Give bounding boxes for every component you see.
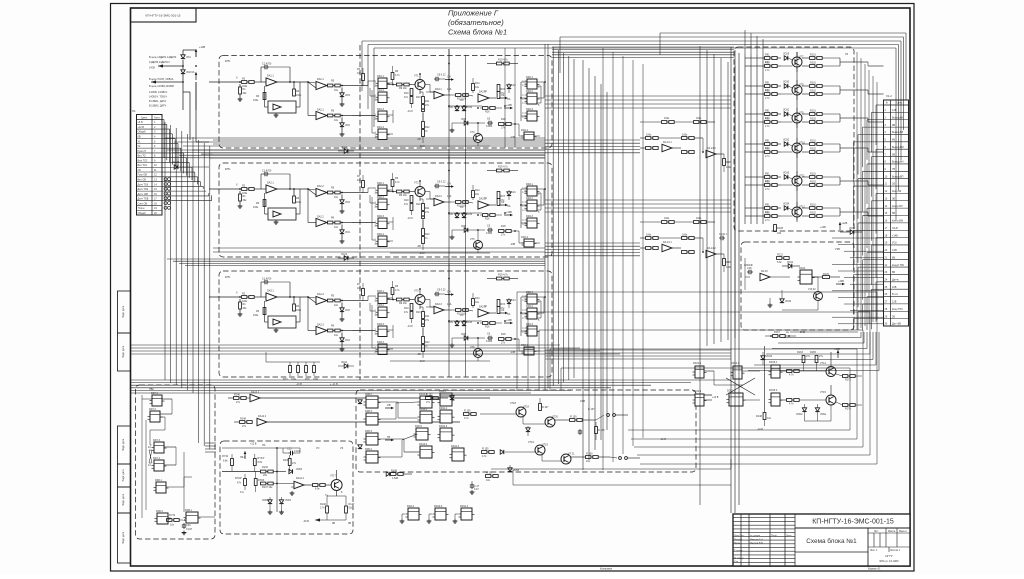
svg-text:R92: R92 [765, 148, 770, 151]
svg-text:DD2.2: DD2.2 [526, 90, 534, 93]
resistor R125 [823, 276, 830, 279]
channel 2 diode VD cap C24 [507, 192, 511, 196]
bus to decoder [205, 442, 216, 444]
bottom box top rail [222, 447, 300, 449]
channel 1 comparator DA3.1 [434, 91, 444, 99]
svg-text:0.047: 0.047 [186, 528, 193, 531]
channel 1 diode VD3 [340, 93, 344, 97]
power transistor dashed enclosure [734, 47, 854, 231]
svg-text:VD: VD [460, 99, 464, 102]
svg-text:DA2.1: DA2.1 [267, 182, 274, 185]
resistor R139 [570, 419, 575, 422]
svg-text:DD11.3: DD11.3 [439, 425, 448, 428]
diode VD1 [181, 55, 185, 59]
svg-text:24 В: 24 В [580, 400, 585, 403]
svg-text:R17в: R17в [845, 408, 851, 411]
row collector resistors VT11 [810, 176, 815, 179]
logic DD8.2 column [366, 396, 378, 408]
svg-text:НА: НА [262, 444, 266, 447]
svg-text:R146: R146 [234, 394, 240, 397]
channel 1 resistor R10 [410, 89, 413, 96]
channel 1 logic outputs [387, 82, 393, 84]
svg-text:+12 В: +12 В [250, 443, 257, 446]
svg-text:DD8.3: DD8.3 [365, 410, 373, 413]
channel 3 comparator DA2.1 [308, 297, 316, 298]
svg-text:R102: R102 [810, 90, 816, 93]
channel 2 VT emitter chain [422, 199, 424, 204]
channel 2 transistor VT2 [415, 187, 425, 197]
diode VD41 [788, 264, 792, 268]
row diode VD33 [784, 175, 788, 179]
feedback resistor DA 13.2 [723, 159, 726, 166]
svg-text:R122: R122 [777, 254, 783, 257]
svg-text:VD61: VD61 [285, 499, 292, 502]
mid horizontals y350 [545, 349, 731, 351]
svg-text:Подп. дата: Подп. дата [122, 438, 125, 451]
channel 3 VT emitter chain [422, 307, 424, 312]
svg-text:VD6м: VD6м [796, 413, 803, 416]
svg-text:VT1: VT1 [414, 75, 419, 78]
logic DD12.3 [729, 393, 743, 406]
channel 1 resistor R18 [499, 123, 504, 126]
terminals M2 [619, 457, 622, 460]
channel 2 resistor R7 left [362, 181, 365, 188]
svg-text:DD2.4: DD2.4 [521, 129, 529, 132]
bottom rail with arrow [315, 519, 346, 521]
svg-text:ФНЧ: ФНЧ [225, 60, 231, 63]
svg-text:С24: С24 [511, 84, 516, 87]
channel 3 resistor R9 [397, 298, 402, 301]
summing resistors DA 13.1 [646, 137, 651, 140]
svg-text:Контр ВМ: Контр ВМ [892, 220, 903, 223]
transistor VT17 [331, 480, 342, 491]
channel 3 input resistor R31 [209, 296, 241, 298]
row transistor VT9 [792, 113, 802, 123]
logic DD7.3 [154, 442, 164, 453]
logic DD10.3 [435, 508, 446, 520]
svg-text:DA 13.1: DA 13.1 [663, 141, 672, 144]
capacitor driver [579, 429, 581, 431]
channel 3 resistor R15 [497, 300, 500, 307]
svg-text:DA2.1: DA2.1 [317, 109, 324, 112]
svg-text:R14: R14 [475, 189, 480, 192]
svg-text:VD4: VD4 [345, 339, 350, 342]
svg-text:+12 В: +12 В [138, 126, 145, 129]
svg-text:+12 В: +12 В [712, 396, 719, 399]
channel 3 resistor R10 [410, 304, 413, 311]
connector X1 table [137, 115, 163, 216]
channel 1 capacitor C6 [487, 122, 489, 124]
svg-text:9В: 9В [892, 124, 895, 127]
diode VD64 [386, 472, 390, 476]
svg-text:R149: R149 [391, 470, 397, 473]
resistor R160 [586, 456, 591, 459]
channel 2 resistor R12 bottom [422, 229, 425, 236]
svg-text:DA3.3: DA3.3 [435, 303, 442, 306]
svg-text:DD3.3: DD3.3 [377, 323, 385, 326]
channel 1 transistor VT4 [474, 134, 483, 143]
summing input resistors upper [662, 121, 667, 124]
channel 1 resistor R7 left [362, 74, 365, 81]
svg-text:VD41: VD41 [787, 261, 794, 264]
channel 2 VT to DA3 link [425, 191, 430, 193]
svg-text:R98: R98 [726, 161, 731, 164]
arrow up +12 [244, 454, 246, 459]
svg-text:14ОК: 14ОК [149, 67, 156, 70]
svg-text:DD2.2: DD2.2 [526, 197, 534, 200]
resistor R143 [167, 519, 172, 522]
svg-text:+13В: +13В [506, 211, 512, 214]
transistor lower right box [814, 292, 823, 301]
svg-text:R18: R18 [501, 225, 506, 228]
svg-text:ПА: ПА [507, 205, 511, 208]
channel 1 resistor R12 bottom [422, 122, 425, 129]
svg-text:DA2.3: DA2.3 [317, 293, 324, 296]
channel 3 diode VD cap C24 [507, 300, 511, 304]
svg-text:С140 1: С140 1 [719, 233, 728, 236]
channel 1 diode VD4 [340, 123, 344, 127]
svg-text:DD2.3: DD2.3 [377, 215, 385, 218]
row wires VT12 [839, 208, 841, 216]
svg-text:VD12: VD12 [341, 253, 348, 256]
svg-text:-0В: -0В [417, 138, 421, 141]
svg-text:0.002: 0.002 [486, 232, 493, 235]
channel 1 resistor R14 [472, 84, 475, 91]
channel 3 resistor R18 [499, 338, 504, 341]
diode VD57 [450, 396, 454, 400]
title block name cell [795, 551, 868, 553]
svg-text:ФНЧ: ФНЧ [225, 276, 231, 279]
svg-text:VT 21: VT 21 [568, 453, 575, 456]
svg-text:ОА.В: ОА.В [892, 227, 898, 230]
resistor R155 [482, 451, 487, 454]
wires into X1.2 [876, 104, 884, 106]
svg-text:ОВ: ОВ [387, 404, 391, 407]
svg-text:VD62: VD62 [296, 468, 303, 471]
svg-text:R102: R102 [810, 212, 816, 215]
channel 1 resistor R14 [293, 89, 296, 96]
svg-text:10А: 10А [447, 88, 452, 91]
channel 2 comparator DA2.1 [308, 189, 316, 190]
channel 1 diode VD8 row [464, 121, 468, 125]
svg-text:R101: R101 [810, 54, 816, 57]
svg-text:R12: R12 [425, 233, 430, 236]
crossing wires decoder [378, 401, 398, 403]
channel 3 optocoupler pin stubs [525, 295, 528, 297]
channel 1 optocoupler cross wires [537, 81, 544, 83]
svg-text:ВНВ: ВНВ [800, 331, 805, 334]
right section boundary verticals [730, 47, 732, 513]
svg-text:R101: R101 [810, 140, 816, 143]
logic DD10 column [420, 396, 432, 408]
logic DD15.2 [771, 393, 780, 406]
X1 row output resistors [164, 178, 167, 181]
svg-text:R 150: R 150 [464, 410, 471, 413]
channel 2 resistor R16b [483, 214, 488, 217]
svg-text:R76: R76 [305, 378, 310, 381]
svg-text:УЗ: УЗ [340, 446, 344, 450]
svg-text:R137 10к: R137 10к [262, 486, 273, 489]
svg-text:R91: R91 [765, 173, 770, 176]
channel 1 wires to logic [352, 85, 368, 87]
logic DD15.1 [771, 365, 780, 378]
svg-text:VD34: VD34 [785, 300, 792, 303]
svg-text:DD2.3: DD2.3 [526, 323, 534, 326]
svg-text:VD56: VD56 [513, 469, 520, 472]
channel 3 capacitor C6 [487, 337, 489, 339]
svg-text:ФНЧ: ФНЧ [225, 168, 231, 171]
svg-text:Вкл ОВ: Вкл ОВ [138, 178, 147, 181]
svg-text:-13В: -13В [510, 243, 516, 246]
resistor R165 vertical [815, 356, 818, 363]
svg-text:Копировал: Копировал [600, 568, 613, 571]
long lines under decoder [491, 468, 731, 470]
title block frame [733, 514, 910, 566]
power rail +12V arrow [195, 52, 197, 57]
resistor R128 [774, 225, 777, 232]
row collector resistors VT10 [810, 143, 815, 146]
logic DD9.1 [440, 393, 452, 406]
wires lower right box [745, 276, 750, 278]
channel 1 resistor R13 [456, 94, 461, 97]
channel 3 diodes VD9 VD10 [455, 322, 459, 326]
svg-text:Пров.: Пров. [734, 542, 741, 545]
svg-text:Формат А1: Формат А1 [868, 568, 881, 571]
svg-text:R 136: R 136 [598, 429, 605, 432]
svg-text:Вывод ВЛ: Вывод ВЛ [892, 131, 904, 134]
channel 3 dashed enclosure [219, 271, 552, 377]
logic DD6.1 [156, 482, 166, 493]
svg-text:DA 14.1: DA 14.1 [663, 241, 672, 244]
svg-text:DA3.1: DA3.1 [435, 88, 442, 91]
svg-text:-14 В: -14 В [757, 428, 763, 431]
svg-text:DA12.1: DA12.1 [251, 391, 260, 394]
channel 2 input resistor R21 [209, 188, 241, 190]
diode VD58 [526, 428, 530, 432]
svg-text:R 139: R 139 [570, 416, 577, 419]
svg-text:Вкл ТО: Вкл ТО [138, 155, 146, 158]
row diode VD30 [784, 84, 788, 88]
svg-text:Сигн ОВ: Сигн ОВ [138, 202, 148, 205]
resistor R136 [288, 459, 291, 466]
resistor R173 row2 [787, 399, 792, 402]
channel 3 optocoupler DD2.4 [524, 347, 534, 355]
svg-text:R10: R10 [404, 92, 409, 95]
channel 1 bottom diode [344, 149, 348, 153]
svg-text:VD3: VD3 [345, 94, 350, 97]
row collector resistors VT7 [810, 57, 815, 60]
svg-text:Лит.: Лит. [874, 530, 879, 533]
svg-text:1000пФ: 1000пФ [744, 264, 753, 267]
svg-text:Датч ТОК: Датч ТОК [138, 188, 149, 191]
channel 3 bottom resistor row [289, 366, 292, 373]
svg-text:VD29: VD29 [783, 53, 790, 56]
svg-text:VD6н: VD6н [820, 413, 827, 416]
capacitor C27 [471, 483, 473, 485]
svg-text:Приложение Г: Приложение Г [448, 9, 499, 18]
channel 2 logic outputs [387, 189, 393, 191]
svg-text:НГТУ: НГТУ [885, 554, 893, 558]
svg-text:Изм Лист: Изм Лист [734, 535, 745, 538]
svg-text:Листов 1: Листов 1 [890, 549, 901, 552]
channel 2 resistor R18 [499, 230, 504, 233]
resistor R137 [261, 482, 266, 485]
comb wires to X1.2 [832, 237, 884, 239]
svg-text:+5 В: +5 В [138, 121, 143, 124]
svg-text:DD3.4: DD3.4 [377, 341, 385, 344]
svg-text:+13В: +13В [506, 319, 512, 322]
svg-text:VD: VD [460, 314, 464, 317]
svg-text:6В: 6В [892, 256, 895, 259]
svg-text:VD: VD [460, 206, 464, 209]
power block to X1.2 wires [854, 61, 868, 63]
power block feed horizontals [552, 46, 734, 48]
channel 2 bottom diode [344, 256, 348, 260]
channel 3 cap C9 arrow [434, 293, 436, 295]
vertical bus right section [764, 346, 766, 412]
resistor R152 row [426, 397, 431, 400]
svg-text:14ДЕН3,14ДЕН1Ч: 14ДЕН3,14ДЕН1Ч [149, 61, 170, 64]
svg-text:R10: R10 [404, 199, 409, 202]
channel 2 wires to logic [352, 192, 368, 194]
svg-text:С24: С24 [511, 299, 516, 302]
inter-channel bundle 1 [167, 149, 545, 151]
wire bus from input [182, 97, 184, 110]
svg-text:У10 42: У10 42 [808, 288, 816, 291]
long channel verticals [448, 49, 450, 377]
channel 3 comparator DA2.2 [316, 326, 327, 334]
svg-text:Общий: Общий [138, 131, 147, 134]
channel 1 resistor R9 [397, 83, 402, 86]
channel 1 diodes VD9 VD10 [455, 107, 459, 111]
driver section dashed boundary [359, 45, 361, 380]
resistor R171 row1 [787, 370, 792, 373]
diode VD55 [500, 450, 504, 454]
channel 3 optocoupler cross wires [537, 296, 544, 298]
row collector resistors VT9 [810, 113, 815, 116]
channel 3 resistor R19 top [497, 277, 502, 280]
svg-text:В отч: В отч [892, 293, 899, 296]
channel 2 diode VD4 [340, 230, 344, 234]
svg-text:7В: 7В [892, 168, 895, 171]
channel 1 comparator DA2.2 [316, 111, 327, 119]
diode VD62 [289, 469, 293, 473]
channel 2 optocoupler DD2.2 [527, 200, 537, 211]
svg-text:Н. контр.: Н. контр. [734, 557, 744, 560]
channel 2 resistor R11 [422, 204, 425, 211]
op-amp DA 13.1 [646, 147, 651, 150]
comparator DA12.2 [257, 418, 267, 426]
logic DD8.1 [186, 512, 198, 523]
channel 1 VT emitter chain [422, 92, 424, 97]
svg-text:Пуск ОВ: Пуск ОВ [138, 174, 148, 177]
svg-text:R102: R102 [810, 148, 816, 151]
svg-text:КП-НГТУ-16-ЭМС-001-15: КП-НГТУ-16-ЭМС-001-15 [812, 519, 894, 526]
svg-text:DD12.4: DD12.4 [693, 390, 702, 393]
channel to mid wires [545, 139, 640, 141]
channel 2 op-amp DA2.1 [266, 185, 277, 193]
svg-text:DA3.2: DA3.2 [435, 195, 442, 198]
resistor R140 vertical [763, 413, 766, 420]
svg-text:0.47: 0.47 [474, 488, 479, 491]
channel 1 resistor R6 [391, 73, 394, 80]
svg-text:R92: R92 [765, 212, 770, 215]
svg-text:RY32: RY32 [222, 455, 229, 458]
channel 2 resistor R10 [410, 196, 413, 203]
right long verticals [856, 52, 858, 330]
title block lit/mass cells [868, 532, 910, 534]
svg-text:DD14: DD14 [799, 267, 806, 270]
channel 2 comparator DA3.1 [434, 198, 444, 206]
channel 2 resistor after DA2.2 [328, 221, 333, 224]
svg-text:R16: R16 [485, 218, 490, 221]
svg-text:10А: 10А [447, 195, 452, 198]
svg-text:VD1: VD1 [186, 56, 191, 59]
junction vertical [276, 448, 278, 512]
svg-text:R92: R92 [765, 181, 770, 184]
svg-text:ЭПА гр. 16-ЭМС: ЭПА гр. 16-ЭМС [879, 559, 899, 563]
svg-text:Т. контр.: Т. контр. [734, 549, 744, 552]
channel 1 resistor after DA2.1 [328, 84, 333, 87]
svg-text:-13.8: -13.8 [419, 252, 425, 255]
channel 3 resistor R7 left [362, 289, 365, 296]
diodes VD60 VD61 [268, 500, 272, 504]
channel 3 resistor R16b [483, 322, 488, 325]
channel 2 transistor VT5 [474, 241, 483, 250]
channel 3 bottom diode [344, 364, 348, 368]
svg-text:R19 4.7к: R19 4.7к [498, 274, 509, 277]
svg-text:R92: R92 [765, 90, 770, 93]
svg-text:RY34: RY34 [169, 514, 176, 517]
svg-text:RY34*: RY34* [258, 457, 265, 460]
svg-text:DD2.1: DD2.1 [526, 183, 534, 186]
svg-text:Датч ТОВ: Датч ТОВ [138, 198, 149, 201]
svg-text:DA2.1: DA2.1 [317, 78, 324, 81]
svg-text:DD3.2: DD3.2 [377, 304, 385, 307]
channel 3 resistor R11 [422, 312, 425, 319]
svg-text:DA11.2: DA11.2 [296, 477, 305, 480]
resistor R157 [486, 475, 491, 478]
resistor R N [539, 404, 542, 411]
svg-text:DD2.3: DD2.3 [526, 108, 534, 111]
svg-text:R91: R91 [765, 110, 770, 113]
resistor RY32 [231, 459, 234, 466]
channel 2 emitter bus [390, 252, 490, 254]
svg-text:Пуск 27: Пуск 27 [138, 150, 147, 153]
row wires VT8 [839, 86, 841, 94]
lower right dashed enclosure [741, 242, 854, 330]
svg-text:VD34: VD34 [783, 203, 790, 206]
junction dots input [182, 65, 184, 67]
wires below X1.2 [790, 331, 858, 333]
svg-text:R148: R148 [756, 415, 762, 418]
top-left document stamp [131, 8, 197, 22]
cross wires DD12 [704, 370, 714, 372]
channel 2 optocoupler pin stubs [525, 187, 528, 189]
svg-text:DD12.1: DD12.1 [693, 362, 702, 365]
svg-text:VT3: VT3 [414, 290, 419, 293]
channel 3 wires to logic [352, 300, 368, 302]
svg-text:DD2.4: DD2.4 [521, 344, 529, 347]
svg-text:Конр ТРК: Конр ТРК [892, 308, 903, 311]
svg-text:DD2.2: DD2.2 [377, 196, 385, 199]
svg-text:VD44: VD44 [766, 355, 773, 358]
row transistor VT8 [792, 85, 802, 95]
diode VD56 [508, 468, 512, 472]
svg-text:R10: R10 [416, 311, 421, 314]
channel 2 diode VD3 [340, 200, 344, 204]
svg-text:DD6.2: DD6.2 [156, 510, 164, 513]
